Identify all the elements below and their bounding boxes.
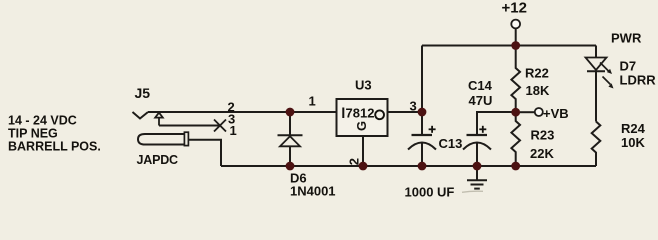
connector J5 plug barrel: [138, 134, 185, 145]
svg-text:7812: 7812: [346, 106, 375, 121]
svg-text:10K: 10K: [621, 135, 645, 150]
svg-text:47U: 47U: [469, 93, 493, 108]
note: input voltage note text: [8, 114, 101, 154]
wire: +12 terminal stub: [515, 29, 517, 46]
regulator U3 input pin marker I: [342, 108, 344, 119]
connector J5 plug end cap: [184, 132, 188, 145]
wire: ground rail: [221, 165, 596, 167]
junction: +12 rail: [511, 41, 520, 50]
terminal +12: [511, 20, 520, 29]
wire: output node riser: [421, 46, 423, 113]
svg-text:1: 1: [309, 94, 316, 109]
svg-text:G: G: [354, 121, 369, 131]
capacitor C14: [463, 112, 516, 166]
svg-text:22K: 22K: [530, 146, 554, 161]
junction: C13 at ground rail: [418, 162, 427, 171]
wire: rail to LED D7: [595, 46, 597, 58]
svg-text:+12: +12: [502, 0, 527, 17]
svg-text:U3: U3: [355, 78, 372, 93]
wire: J5 switch stub: [159, 125, 220, 127]
svg-text:R24: R24: [621, 121, 646, 136]
junction: D6 cathode at ground rail: [286, 162, 295, 171]
regulator U3 output pin marker O: [375, 110, 384, 119]
terminal +VB: [535, 108, 543, 116]
wire: +12 rail: [422, 45, 596, 47]
svg-text:+VB: +VB: [543, 106, 569, 121]
wire: J5 sleeve down: [188, 140, 221, 166]
svg-text:TIP NEG: TIP NEG: [8, 127, 58, 141]
capacitor C13: [408, 112, 436, 166]
svg-text:J5: J5: [135, 85, 151, 101]
wire: +VB terminal stub: [520, 111, 535, 113]
svg-text:JAPDC: JAPDC: [137, 153, 179, 167]
svg-text:C13: C13: [439, 136, 463, 151]
no-connect X on pin 3: [214, 120, 226, 132]
svg-text:LDRR: LDRR: [620, 73, 657, 88]
svg-text:PWR: PWR: [611, 31, 642, 46]
junction: U3 pin 2 at ground rail: [359, 162, 368, 171]
resistor R23: [511, 113, 520, 167]
svg-text:14 - 24 VDC: 14 - 24 VDC: [8, 114, 77, 128]
svg-text:R22: R22: [525, 66, 549, 81]
ground: [467, 166, 487, 189]
faint scan scratch: [462, 191, 483, 192]
wire: U3 pin 3 to node: [388, 111, 423, 113]
svg-text:1: 1: [230, 123, 237, 138]
wire: J5 tip to U3 pin 1: [148, 111, 337, 113]
regulator U3 box: [337, 99, 388, 136]
svg-text:1N4001: 1N4001: [290, 184, 336, 199]
resistor R24: [592, 122, 601, 167]
junction: C14/ground at rail: [473, 162, 482, 171]
connector J5 switch contact arrow: [155, 113, 163, 126]
junction: +VB node: [511, 108, 520, 117]
junction: D6 anode at input wire: [286, 108, 295, 117]
svg-text:1000 UF: 1000 UF: [405, 184, 455, 199]
resistor R22: [511, 46, 520, 113]
svg-text:BARRELL POS.: BARRELL POS.: [8, 140, 101, 154]
junction: output node: [418, 108, 427, 117]
svg-text:18K: 18K: [526, 83, 550, 98]
diode D6: [278, 112, 303, 166]
junction: R23 at ground rail: [511, 162, 520, 171]
svg-text:C14: C14: [468, 78, 493, 93]
svg-text:D7: D7: [620, 59, 637, 74]
connector J5 tip contact: [133, 112, 149, 119]
wire: U3 pin 2 to ground rail: [362, 136, 364, 166]
LED D7: [586, 58, 614, 122]
svg-text:R23: R23: [531, 128, 555, 143]
